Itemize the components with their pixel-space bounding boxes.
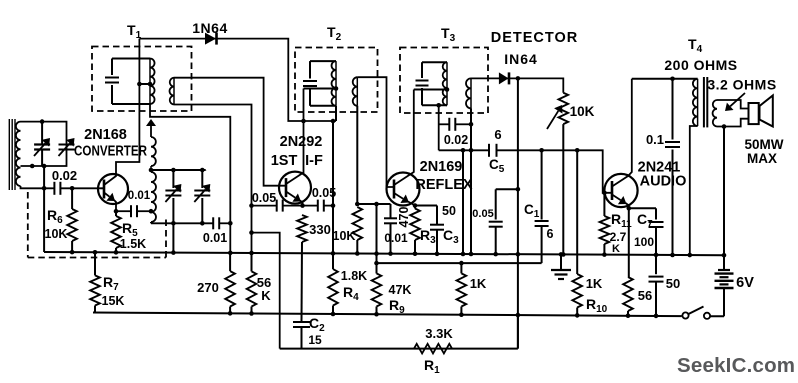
svg-text:3.3K: 3.3K [425,326,453,341]
transformer T4 primary coil [693,79,698,126]
svg-text:0.1: 0.1 [646,132,664,147]
wire AVC line to bus3 [252,233,280,349]
label 50MW MAX [744,137,783,166]
label T1 [127,22,142,41]
wire bus3 (AVC/R1 line) [280,348,518,350]
wire T1 primary bottom to osc tank [150,104,233,255]
wire T4 secondary return [722,127,727,258]
svg-text:2N168: 2N168 [84,127,127,143]
svg-text:1K: 1K [470,276,487,291]
wire T1 secondary top to Q2 base [174,78,286,186]
svg-text:10K: 10K [45,227,68,241]
wire detector vertical [516,78,521,348]
wire T4 primary bottom [688,126,698,257]
capacitor 0.01 (emitter coupling) [116,190,151,217]
wire T2 secondary top to Q3 base [357,77,394,187]
wire T2 tap tie [304,88,337,90]
wire Q1 emitter [104,193,118,214]
wire top line (T1 to T2) [139,39,336,121]
wire bus1 (common rail) [44,252,724,255]
wire varcap to bus [171,223,176,255]
svg-text:10K: 10K [570,104,595,119]
label T2 [327,24,342,43]
svg-text:IN64: IN64 [504,51,538,67]
transformer T3 secondary coil [466,78,471,108]
resistor 10K (IF stage) [333,207,363,256]
svg-text:100: 100 [634,235,654,249]
svg-text:1ST: 1ST [271,153,298,169]
diode 1N64 (oscillator injection) [192,20,227,45]
resistor 270 [197,253,235,316]
svg-text:15: 15 [308,333,322,347]
svg-text:330: 330 [309,222,331,237]
svg-text:MAX: MAX [747,151,777,166]
svg-text:1K: 1K [586,276,603,291]
capacitor 50 (bypass) [649,255,681,318]
wire antenna downlead / node [30,164,46,252]
oscillator coil (variable, arrow) [146,119,156,223]
variable capacitor (antenna tuning 2) [59,138,75,156]
capacitor 0.02 (antenna coupling) [52,168,101,195]
dashed box T1 [92,47,192,112]
svg-text:K: K [612,243,620,255]
antenna ferrite rod [9,119,15,190]
wire T3 primary bottom to C5 line [438,105,440,150]
resistor 1K (reflex load) [457,263,487,317]
svg-text:270: 270 [197,280,219,295]
wire Q2 collector to T2 tap [286,89,306,185]
svg-text:0.05: 0.05 [472,208,493,220]
transformer T2 secondary coil [353,77,358,106]
wire Q2 emitter [286,192,305,208]
wire T2 secondary bottom [355,106,360,207]
wire Q4 collector to T4 [632,78,698,80]
resistor 330 (Q2 emitter) [297,215,331,322]
svg-text:0.05: 0.05 [252,191,276,205]
capacitor (T3 tank) [416,62,429,105]
dashed box (converter stage) [28,192,166,258]
variable capacitor (antenna tuning 1) [34,119,50,166]
label 2N292 1ST I-F [271,134,323,169]
wire T3 secondary bottom [469,108,474,256]
svg-text:0.01: 0.01 [128,190,151,202]
svg-text:50MW: 50MW [744,137,783,152]
dashed box T3 [400,48,488,114]
battery 6V [715,255,755,316]
wire R9 column [374,204,379,273]
transformer T3 primary coil [443,62,450,105]
svg-text:6: 6 [494,127,501,142]
transistor Q4 2N241 [604,174,637,207]
wire Q4 collector riser [612,79,632,187]
transistor Q3 2N169 [387,173,420,206]
wire Q3 emitter [394,193,417,208]
resistor R10 (1K) [572,148,607,318]
svg-text:50: 50 [666,276,680,291]
antenna coil [16,122,21,186]
svg-text:0.02: 0.02 [444,133,468,147]
resistor R7 (15K) [90,250,124,313]
svg-text:2.7: 2.7 [610,230,627,244]
ground [551,252,571,279]
svg-text:470: 470 [397,207,411,228]
wire T2 tank [310,61,336,106]
label 2N241 AUDIO [638,160,687,190]
wire second line [377,261,542,266]
svg-text:50: 50 [442,204,456,218]
capacitor C7 (100) [629,208,664,257]
svg-text:10K: 10K [333,229,356,243]
svg-text:CONVERTER: CONVERTER [74,144,147,160]
variable capacitor (osc tuning 2) [194,170,210,223]
label 2N168 CONVERTER [74,127,147,160]
capacitor C5 (6) [489,127,505,175]
transformer T1 secondary coil [170,78,174,105]
transistor Q2 2N292 [279,172,311,204]
svg-text:AUDIO: AUDIO [640,174,687,190]
wire C5 line (AF takeoff) [439,150,612,193]
svg-text:200 OHMS: 200 OHMS [664,57,737,73]
svg-text:SeekIC.com: SeekIC.com [677,354,795,377]
svg-text:DETECTOR: DETECTOR [491,30,579,46]
watermark SeekIC.com [677,354,795,377]
transformer T1 primary coil [148,59,155,105]
capacitor 0.05 (IF input) [252,191,303,212]
capacitor 0.05 (detector filter) [472,189,518,256]
transistor Q1 2N168 [98,174,128,204]
resistor 56 (Q4 emitter) [623,208,652,318]
wire T1 tap [137,82,150,87]
label T3 [441,25,456,44]
capacitor (T2 tank) [303,61,317,106]
variable capacitor (osc tuning 1) [165,170,181,223]
capacitor 0.1 [646,77,680,258]
capacitor 0.01 (osc tank series) [151,217,230,245]
svg-text:47K: 47K [389,283,412,297]
svg-text:1.8K: 1.8K [341,269,367,283]
resistor R11 (2.7K) [600,191,633,257]
resistor R9 (47K) [372,263,412,316]
wire T3 tank [422,62,447,107]
wire Q4 emitter [612,195,631,211]
wire T3 tap tie [414,89,447,91]
wire Q1 collector to T1 [104,39,139,185]
wire detector line [471,76,563,93]
potentiometer 10K (volume) [547,93,595,257]
svg-text:0.01: 0.01 [203,231,227,245]
svg-text:1.5K: 1.5K [120,237,146,251]
svg-text:56: 56 [638,288,652,303]
capacitor 0.01 (reflex base) [384,204,408,256]
svg-text:0.02: 0.02 [52,168,77,183]
svg-text:K: K [261,288,271,303]
label DETECTOR [491,30,579,67]
capacitor C2 (15) [293,315,325,349]
switch (on/off) [682,307,710,319]
resistor R5 (1.5K) [111,211,146,254]
svg-text:3.2 OHMS: 3.2 OHMS [707,77,776,93]
svg-text:15K: 15K [102,294,125,308]
dashed box T2 [295,48,378,113]
transformer T4 core [704,77,707,127]
wire bus2 (battery rail) [93,313,724,317]
label 3.2 OHMS [707,77,776,112]
svg-text:6: 6 [547,227,554,241]
label 2N169 REFLEX [415,159,473,193]
svg-text:1N64: 1N64 [192,20,227,36]
wire antenna tank box [21,122,67,166]
label 1N64 top position fix [0,0,1,1]
speaker [749,96,773,127]
transformer T4 secondary coil [713,100,749,129]
svg-text:2N292: 2N292 [280,134,323,150]
resistor R3 (470) [397,206,436,257]
resistor R6 (10K) [45,186,77,254]
wire bus3 to bus2 (via det line) [517,315,519,349]
capacitor 0.05 (IF output) [303,186,337,212]
wire osc tank top [151,168,206,173]
resistor 56K [247,253,272,316]
wire antenna to 0.02 cap [21,186,53,188]
wire stub x463 [461,148,466,256]
capacitor C1 (6) [524,148,554,263]
resistor R1 (3.3K) [414,326,453,376]
svg-text:6V: 6V [736,275,754,291]
wire Q3 collector to T3 [394,90,414,186]
svg-text:2N169: 2N169 [420,159,463,175]
capacitor 0.02 (T3) [439,118,471,147]
wire T2 primary bottom riser [331,106,336,123]
capacitor C3 (50) [415,204,459,256]
svg-text:I-F: I-F [305,153,323,169]
transformer T2 primary coil [332,61,339,106]
capacitor (T1 tank) [105,59,119,105]
wire T1 tank [112,59,150,105]
diode 1N64 (detector) [499,72,509,84]
resistor R4 (1.8K) [328,121,367,316]
svg-text:0.01: 0.01 [384,231,408,245]
label T4 [664,36,737,73]
wire T1 secondary bottom [174,105,254,256]
wire tie to R9 column [357,202,390,207]
svg-text:REFLEX: REFLEX [415,177,473,193]
